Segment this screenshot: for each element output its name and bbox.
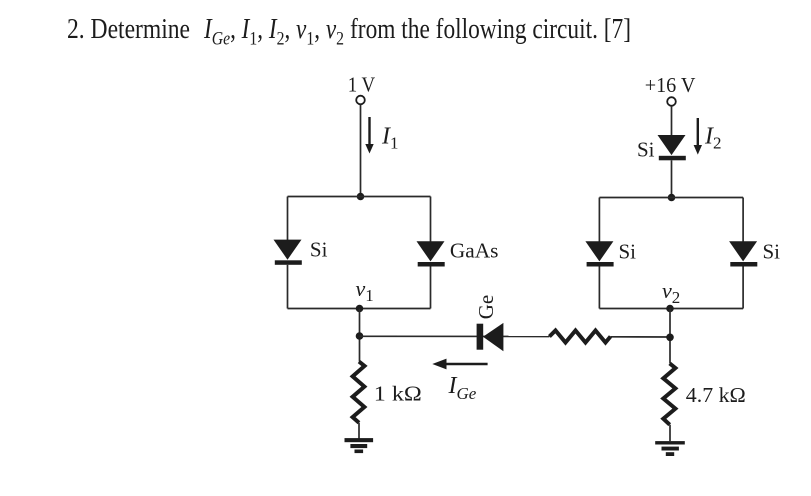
resistor R3 4.7 kOhm bbox=[663, 363, 675, 424]
node B (junction dot at Ge branch) bbox=[356, 332, 364, 340]
ground right bbox=[655, 441, 685, 456]
svg-text:I1: I1 bbox=[381, 124, 399, 153]
wire top horizontal right loop bbox=[599, 197, 743, 199]
wire v1 down to lower node bbox=[359, 309, 361, 362]
node v1 (junction dot) bbox=[356, 305, 364, 313]
node A (junction dot) bbox=[357, 193, 365, 201]
svg-text:Si: Si bbox=[763, 240, 781, 264]
diode D2 GaAs bbox=[417, 241, 445, 266]
wire D5 down to v2 rail bbox=[598, 267, 600, 309]
node v2 (junction dot) bbox=[666, 305, 674, 313]
wire right branch right loop down bbox=[742, 198, 744, 242]
svg-text:IGe, I1, I2, v1, v2: IGe, I1, I2, v1, v2 bbox=[203, 14, 344, 50]
wire right branch down to GaAs diode bbox=[430, 197, 432, 242]
wire v2 down through node C bbox=[669, 309, 671, 364]
wire top horizontal left loop bbox=[288, 196, 431, 198]
svg-text:Si: Si bbox=[637, 138, 655, 162]
wire node B to Ge diode bbox=[360, 335, 550, 337]
wire +16V down to Si diode D4 bbox=[671, 106, 673, 136]
wire D4 to node D bbox=[671, 160, 673, 197]
node C (junction dot) bbox=[666, 334, 674, 342]
terminal node +16V (open circle) bbox=[667, 97, 676, 106]
svg-text:Si: Si bbox=[310, 238, 328, 262]
diode D1 Si (left) bbox=[274, 240, 302, 265]
svg-text:v2: v2 bbox=[662, 278, 680, 307]
wire v1 horizontal rail bbox=[288, 308, 431, 310]
wire R3 to ground bbox=[669, 425, 671, 441]
svg-text:GaAs: GaAs bbox=[450, 239, 499, 263]
svg-text:Ge: Ge bbox=[474, 295, 498, 320]
wire left branch right loop down bbox=[598, 198, 600, 242]
wire v2 horizontal rail bbox=[599, 308, 743, 310]
resistor R1 1 kOhm bbox=[353, 362, 365, 423]
terminal node 1V (open circle) bbox=[356, 96, 365, 105]
ground left bbox=[345, 438, 374, 453]
current arrow I1 bbox=[365, 117, 373, 154]
wire R1 to ground bbox=[358, 423, 360, 439]
current arrow IGe (pointing left) bbox=[432, 359, 487, 370]
svg-text:Si: Si bbox=[619, 240, 637, 264]
svg-text:from the following circuit. [7: from the following circuit. [7] bbox=[350, 14, 631, 45]
resistor R2 (series, unlabeled) bbox=[549, 331, 610, 343]
diode D5 Si (right loop left) bbox=[585, 241, 613, 266]
svg-text:2. Determine: 2. Determine bbox=[67, 14, 190, 45]
diode D3 Ge (pointing left) bbox=[477, 323, 504, 351]
svg-text:1 V: 1 V bbox=[348, 73, 376, 97]
svg-text:+16 V: +16 V bbox=[645, 73, 696, 97]
diode D4 Si (top right) bbox=[658, 135, 686, 160]
node D (junction dot) bbox=[668, 194, 676, 202]
wire D6 down to v2 rail bbox=[742, 267, 744, 309]
svg-text:IGe: IGe bbox=[448, 373, 477, 403]
svg-text:4.7 kΩ: 4.7 kΩ bbox=[686, 383, 746, 407]
diode D6 Si (right loop right) bbox=[729, 241, 757, 266]
wire R2 to node C bbox=[611, 336, 671, 338]
wire D2 down to v1 rail bbox=[430, 267, 432, 309]
svg-text:I2: I2 bbox=[704, 124, 722, 153]
svg-text:1 kΩ: 1 kΩ bbox=[374, 381, 422, 405]
wire left branch down to Si diode bbox=[287, 197, 289, 241]
wire D1 down to v1 rail bbox=[287, 265, 289, 309]
current arrow I2 bbox=[694, 118, 702, 155]
svg-text:v1: v1 bbox=[356, 276, 374, 305]
wire 1V source down to node A bbox=[360, 105, 362, 197]
